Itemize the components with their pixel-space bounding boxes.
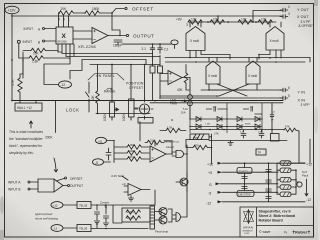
wire M1 to M3 bbox=[201, 55, 270, 60]
capacitor row bbox=[206, 107, 228, 115]
op-amp A4 bbox=[128, 184, 141, 196]
bead wires bbox=[277, 163, 305, 194]
wire row y129.5 bbox=[190, 129, 284, 131]
resistor 10K a bbox=[188, 20, 202, 24]
wire +12 stem bbox=[11, 14, 13, 101]
wire bbox=[63, 227, 77, 229]
node +12V supply oval bbox=[5, 6, 19, 14]
arrow range bbox=[107, 88, 113, 90]
resistor 47K bbox=[284, 128, 299, 141]
wire staircase U1 to jacks bbox=[58, 44, 160, 79]
op-amp A1 bbox=[92, 28, 108, 44]
pin header bbox=[150, 206, 155, 229]
jack Y OUT bbox=[280, 8, 288, 12]
wire right verticals bbox=[309, 58, 311, 164]
arrow down bbox=[54, 158, 58, 172]
wire out up to feedback bbox=[112, 30, 120, 36]
rail +12 bbox=[222, 162, 305, 164]
wire rail mid bbox=[165, 57, 310, 59]
wire input B bbox=[45, 40, 57, 42]
resistor NPO bbox=[127, 157, 141, 161]
wire X OUT line bbox=[218, 16, 282, 22]
wire A3 out to cluster bbox=[164, 141, 172, 154]
caps column2 bbox=[266, 163, 271, 202]
arrow up bbox=[30, 121, 33, 128]
potentiometer RANGE bbox=[110, 102, 115, 117]
diode row 1 bbox=[190, 118, 262, 120]
bead hatches bbox=[283, 161, 290, 196]
wire A1 out bbox=[108, 35, 126, 37]
resistor 10K c bbox=[238, 20, 252, 24]
LED pair D1 D2 bbox=[188, 95, 193, 100]
node -12 oval bbox=[59, 81, 72, 88]
resistor 4.7K vertical bbox=[18, 74, 22, 100]
wire bus 2 bbox=[150, 102, 283, 104]
brace ON PANEL bbox=[88, 74, 124, 81]
jack X IN bbox=[280, 96, 288, 100]
wire +9 rail bbox=[188, 21, 276, 23]
wire +12 rail top bbox=[12, 15, 218, 17]
regulator 78L05 bbox=[77, 202, 91, 209]
wire stubs bbox=[190, 103, 262, 133]
wire drops pots to bus bbox=[98, 113, 145, 121]
wire outputs bbox=[56, 179, 67, 186]
resistor 1.8K below bbox=[29, 56, 43, 60]
rail G bbox=[220, 183, 278, 185]
wire U1 to A1 bbox=[73, 31, 92, 39]
wire bbox=[20, 60, 23, 74]
regulator 79L05 bbox=[77, 225, 91, 232]
resistor 180K bbox=[85, 11, 99, 15]
TP box bbox=[256, 149, 266, 155]
bead R4 bbox=[280, 185, 291, 190]
node -12 oval bbox=[51, 225, 63, 232]
wire y-in line bbox=[201, 89, 283, 91]
node -5 oval bbox=[93, 159, 104, 165]
wire mid rail bbox=[90, 64, 160, 66]
box VREF wall bbox=[15, 103, 42, 111]
transistor Q3 bbox=[180, 178, 188, 186]
resistor 1.8M bbox=[127, 145, 141, 149]
IC box TL072 bbox=[237, 168, 252, 174]
wire x-in line bbox=[160, 97, 283, 99]
resistor 1.52K bbox=[126, 216, 140, 220]
wire M2 pins bbox=[270, 22, 281, 58]
capacitor 2.2 bbox=[158, 44, 162, 53]
node OUTPUT terminal bbox=[126, 34, 128, 36]
resistor 20K bbox=[59, 11, 73, 15]
gate D1 bbox=[176, 151, 184, 158]
resistor 2.49K bbox=[126, 210, 140, 214]
op-amp A2 bbox=[168, 71, 182, 85]
final amp box bbox=[122, 208, 150, 222]
resistor 150K bbox=[127, 151, 141, 155]
jack J1 bbox=[150, 66, 155, 73]
multiplier U1 XR-2208 bbox=[56, 27, 73, 44]
wire bottom bus bbox=[12, 100, 283, 102]
wire M1 pins bbox=[190, 22, 201, 58]
ground bbox=[103, 223, 108, 226]
capacitor 180pF bbox=[114, 40, 122, 45]
wire inputs bbox=[30, 182, 38, 189]
ground tap bbox=[228, 141, 233, 146]
switch LOCK bbox=[86, 86, 90, 112]
handwritten note bbox=[9, 130, 44, 155]
wires around final amp bbox=[122, 145, 187, 205]
node OFFSET terminal bbox=[125, 7, 127, 9]
wire drops from rail bbox=[112, 65, 145, 99]
circle meter bbox=[297, 182, 302, 187]
multiplier block M2 bbox=[266, 27, 284, 51]
capacitor decoupling C10 bbox=[95, 205, 100, 220]
box small mca bbox=[138, 118, 153, 124]
capacitor bbox=[106, 148, 111, 160]
bead R3 bbox=[280, 178, 291, 183]
diode row 2 bbox=[190, 126, 262, 128]
jack J2 bbox=[158, 66, 163, 73]
capacitor 2.1 bbox=[150, 44, 154, 53]
bead R1 bbox=[280, 161, 291, 166]
resistor 21K feedback bbox=[147, 140, 161, 144]
oval tag bbox=[171, 40, 178, 45]
wire output rail y44 bbox=[122, 43, 171, 45]
bead R5 bbox=[280, 192, 291, 197]
title block frame bbox=[240, 207, 314, 237]
capacitor +1uF bbox=[241, 130, 246, 138]
jack X OUT bbox=[280, 15, 288, 19]
jack Y IN bbox=[280, 88, 288, 92]
transistor Q1 bbox=[159, 208, 167, 216]
logo hexagram bbox=[244, 210, 254, 224]
wire M3/M4 tops bbox=[209, 58, 257, 62]
jack input B bbox=[17, 40, 20, 43]
resistor 10K b bbox=[210, 20, 224, 24]
ground bbox=[128, 198, 133, 201]
wires bbox=[104, 141, 115, 163]
resistor 1.5K bbox=[166, 128, 180, 132]
resistor 27K bbox=[193, 145, 207, 149]
multiplier example block bbox=[38, 179, 63, 192]
rail -5 bbox=[222, 191, 278, 193]
resistor 10K vertical bbox=[96, 86, 100, 113]
wire crossing bbox=[160, 84, 257, 96]
ground bbox=[94, 221, 99, 224]
arrow SoT bbox=[305, 179, 308, 196]
capacitor C11 bbox=[104, 208, 109, 222]
wire bbox=[63, 204, 77, 206]
wire bbox=[88, 82, 90, 86]
transistor D shape bbox=[176, 213, 181, 222]
wire 3.3V label arrow bbox=[122, 176, 128, 180]
multiplier block M3 bbox=[206, 61, 220, 84]
wire MCA drop bbox=[139, 122, 141, 141]
wire power to amp bbox=[97, 205, 122, 223]
caps column bbox=[242, 163, 247, 190]
wire pins top of U1 bbox=[59, 13, 69, 27]
resistor 43K bbox=[184, 73, 188, 83]
wire left drops bbox=[22, 52, 24, 78]
resistor Gain box bbox=[190, 134, 209, 140]
resistor 200K vertical bbox=[55, 101, 57, 133]
multiplier block M1 bbox=[186, 27, 205, 51]
resistor 10K d bbox=[258, 20, 272, 24]
wire Y OUT line bbox=[253, 11, 282, 23]
rail +5 bbox=[222, 171, 278, 173]
trimmer circle bbox=[140, 104, 150, 114]
multiplier block M4 bbox=[246, 61, 260, 84]
wire feedback down bbox=[111, 13, 113, 30]
wire row y140.5 bbox=[209, 140, 287, 142]
wire bbox=[74, 12, 85, 14]
wires below U1 bbox=[58, 44, 70, 60]
potentiometer POSITION OFFSET bbox=[129, 99, 135, 117]
IC box LM13700 bbox=[237, 191, 254, 197]
transistor Q2 bbox=[159, 216, 167, 224]
terminator box bbox=[271, 134, 280, 142]
wire to offset bbox=[100, 9, 124, 14]
bead R2 bbox=[280, 168, 291, 173]
rail -12 bbox=[222, 201, 305, 203]
wire -12 stem bbox=[44, 60, 70, 85]
wire input A bbox=[45, 28, 57, 30]
op-amp A3 bbox=[150, 146, 166, 162]
node +12 oval bbox=[51, 202, 63, 209]
resistor 10K below bbox=[31, 48, 45, 52]
rail arrows bbox=[218, 162, 223, 165]
wire to box bbox=[20, 101, 36, 104]
node +5 oval bbox=[96, 137, 107, 143]
